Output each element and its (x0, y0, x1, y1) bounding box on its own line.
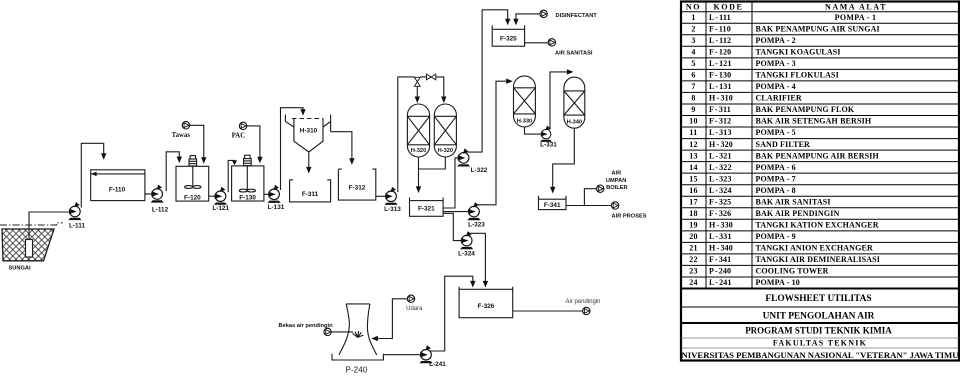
svg-text:CLARIFIER: CLARIFIER (756, 94, 802, 103)
wire F-321 to L-323 (443, 211, 469, 213)
svg-text:Air pendingin: Air pendingin (565, 299, 600, 305)
svg-text:H-320: H-320 (411, 148, 427, 154)
svg-text:5: 5 (691, 59, 695, 68)
wire F-120 to L-121 (209, 195, 216, 197)
tank F-341 (539, 196, 567, 199)
wire L-313 riser to sand filter manifold (398, 77, 415, 192)
wire disinfectant to F-325 (516, 14, 540, 19)
blower Tawas (182, 122, 189, 129)
svg-text:UNIVERSITAS PEMBANGUNAN NASION: UNIVERSITAS PEMBANGUNAN NASIONAL "VETERA… (675, 350, 960, 360)
svg-text:L - 131: L - 131 (709, 82, 732, 91)
svg-text:L - 241: L - 241 (709, 278, 732, 287)
svg-text:Tawas: Tawas (172, 132, 191, 139)
pump L-331 (540, 126, 552, 142)
svg-text:L-241: L-241 (429, 361, 446, 368)
impeller F-130 (239, 189, 247, 192)
svg-text:AIR SANITASI: AIR SANITASI (555, 51, 593, 57)
basin F-311 (290, 180, 331, 202)
svg-text:POMPA - 7: POMPA - 7 (756, 174, 796, 183)
svg-text:11: 11 (689, 128, 697, 137)
svg-text:TANGKI ANION EXCHANGER: TANGKI ANION EXCHANGER (756, 244, 873, 253)
svg-text:F-326: F-326 (478, 303, 495, 310)
wire F-326 to air pendingin (513, 310, 583, 312)
svg-text:F-130: F-130 (239, 194, 256, 201)
svg-text:H - 310: H - 310 (709, 94, 733, 103)
svg-text:4: 4 (691, 48, 695, 57)
basin F-312 (338, 169, 375, 200)
blower bekas air pendingin (324, 328, 331, 335)
blower air umpan boiler (597, 185, 604, 192)
svg-text:L - 323: L - 323 (709, 174, 732, 183)
svg-text:L - 321: L - 321 (709, 151, 732, 160)
svg-text:PAC: PAC (232, 132, 246, 139)
node water surface dash-dot line (0, 223, 63, 225)
svg-text:8: 8 (691, 94, 695, 103)
svg-text:L - 111: L - 111 (709, 13, 731, 22)
svg-text:14: 14 (689, 163, 698, 172)
wire F-312 to L-313 (376, 195, 386, 197)
wire F-130 to L-131 (264, 193, 269, 195)
svg-text:17: 17 (689, 197, 698, 206)
svg-text:24: 24 (689, 278, 698, 287)
svg-text:PROGRAM STUDI TEKNIK KIMIA: PROGRAM STUDI TEKNIK KIMIA (745, 326, 892, 336)
svg-text:H - 320: H - 320 (709, 140, 733, 149)
svg-text:2: 2 (691, 24, 695, 33)
svg-text:H - 330: H - 330 (709, 221, 733, 230)
svg-text:POMPA - 10: POMPA - 10 (756, 278, 800, 287)
svg-text:BOILER: BOILER (606, 185, 628, 191)
wire L-121 to F-130 (228, 160, 234, 192)
cooling tower basin (332, 354, 383, 360)
svg-text:POMPA - 1: POMPA - 1 (835, 13, 877, 22)
svg-text:AIR: AIR (611, 171, 621, 177)
sand/exchanger vessel H-320 (434, 104, 456, 157)
tank F-120 koagulasi (176, 166, 209, 201)
wire L-324 to F-326 (470, 233, 486, 281)
wire F-321 to L-322 (443, 158, 458, 208)
svg-text:BAK PENAMPUNG FLOK: BAK PENAMPUNG FLOK (756, 105, 855, 114)
svg-text:6: 6 (691, 71, 695, 80)
svg-text:9: 9 (691, 105, 695, 114)
svg-text:F - 341: F - 341 (709, 255, 731, 264)
svg-text:POMPA - 3: POMPA - 3 (756, 59, 796, 68)
svg-text:L-323: L-323 (468, 222, 485, 229)
svg-text:F-312: F-312 (349, 184, 366, 191)
svg-text:12: 12 (689, 140, 698, 149)
pump L-324 (460, 231, 473, 249)
wire H-340 to F-341 (553, 128, 575, 187)
pump L-112 (151, 185, 164, 203)
svg-text:20: 20 (689, 232, 698, 241)
svg-text:P - 240: P - 240 (709, 267, 731, 276)
svg-text:F-321: F-321 (418, 205, 435, 212)
svg-text:H-310: H-310 (300, 127, 318, 134)
svg-text:F-325: F-325 (500, 35, 517, 42)
wire valve to H-320 A (416, 86, 418, 97)
svg-text:F - 311: F - 311 (709, 105, 731, 114)
svg-text:L-111: L-111 (69, 223, 85, 230)
tank F-130 flokulasi (232, 166, 264, 201)
svg-text:TANGKI KATION EXCHANGER: TANGKI KATION EXCHANGER (756, 221, 879, 230)
agitator shaft F-130 (246, 166, 248, 191)
svg-text:F - 130: F - 130 (709, 71, 731, 80)
svg-text:Udara: Udara (406, 306, 423, 312)
wire L-112 to F-120 (166, 152, 179, 191)
wire bekas to tower (331, 331, 353, 333)
wire H-320 outlets to F-321 (419, 157, 446, 187)
svg-text:13: 13 (689, 151, 698, 160)
sand/exchanger vessel H-320 (407, 104, 429, 157)
svg-text:F-120: F-120 (184, 194, 201, 201)
svg-text:23: 23 (689, 267, 698, 276)
svg-text:H-320: H-320 (438, 148, 454, 154)
svg-text:DISINFECTANT: DISINFECTANT (556, 13, 598, 19)
svg-text:10: 10 (689, 117, 698, 126)
svg-text:19: 19 (689, 221, 698, 230)
svg-text:L-322: L-322 (471, 167, 488, 174)
valve V2 horizontal bowtie (420, 76, 426, 78)
svg-text:1: 1 (691, 13, 695, 22)
pump L-131 (268, 185, 281, 203)
cooling tower spray (353, 331, 364, 338)
svg-text:Bekas air pendingin: Bekas air pendingin (279, 323, 334, 329)
wire F-110 to L-112 (145, 193, 152, 195)
agitator motor F-130 (245, 155, 250, 158)
svg-text:3: 3 (691, 36, 695, 45)
svg-text:BAK AIR SANITASI: BAK AIR SANITASI (756, 197, 831, 206)
svg-text:16: 16 (689, 186, 698, 195)
svg-text:L - 331: L - 331 (709, 232, 732, 241)
svg-text:22: 22 (689, 255, 698, 264)
pump L-313 (385, 187, 398, 205)
blower PAC (239, 122, 246, 129)
svg-text:18: 18 (689, 209, 698, 218)
tank F-326 (459, 287, 513, 290)
blower air proses (611, 202, 618, 209)
svg-text:POMPA - 8: POMPA - 8 (756, 186, 796, 195)
blower udara (407, 295, 414, 302)
wire udara to cooling tower (378, 299, 408, 339)
svg-text:L - 313: L - 313 (709, 128, 732, 137)
svg-text:H-330: H-330 (517, 118, 533, 124)
pump L-323 (467, 202, 480, 220)
sand/exchanger vessel H-340 (564, 77, 585, 128)
svg-text:BAK AIR PENDINGIN: BAK AIR PENDINGIN (756, 209, 840, 218)
wire L-323 to H-330 (478, 81, 507, 205)
svg-text:F - 312: F - 312 (709, 117, 731, 126)
wire L-331 to H-340 (550, 72, 567, 130)
svg-text:15: 15 (689, 174, 698, 183)
svg-text:TANGKI AIR DEMINERALISASI: TANGKI AIR DEMINERALISASI (756, 255, 881, 264)
svg-text:F-341: F-341 (544, 202, 561, 209)
blower disinfectant (540, 10, 547, 17)
svg-text:L-324: L-324 (458, 251, 475, 258)
valve V1 vertical (416, 76, 418, 78)
pump L-322 (457, 148, 470, 166)
svg-text:KODE: KODE (714, 2, 744, 11)
agitator motor F-120 (190, 156, 195, 159)
pump L-111 (68, 202, 81, 220)
wire L-241 riser to F-326 (430, 276, 473, 351)
wire manifold to H-320 B (436, 77, 444, 97)
svg-text:NAMA ALAT: NAMA ALAT (825, 2, 887, 11)
wire basin to L-241 (383, 354, 421, 356)
svg-text:L-112: L-112 (152, 206, 169, 213)
svg-text:BAK AIR SETENGAH BERSIH: BAK AIR SETENGAH BERSIH (756, 117, 872, 126)
impeller F-120 (185, 186, 193, 189)
svg-text:BAK PENAMPUNG AIR SUNGAI: BAK PENAMPUNG AIR SUNGAI (756, 24, 880, 33)
wire F-341 to outlets (566, 189, 611, 206)
svg-text:POMPA - 9: POMPA - 9 (756, 232, 796, 241)
svg-text:7: 7 (691, 82, 695, 91)
agitator shaft F-120 (192, 166, 194, 187)
svg-text:SAND FILTER: SAND FILTER (756, 140, 811, 149)
tank F-110 (91, 170, 145, 201)
pump L-121 (214, 187, 227, 205)
svg-text:H - 340: H - 340 (709, 244, 733, 253)
svg-text:BAK PENAMPUNG AIR BERSIH: BAK PENAMPUNG AIR BERSIH (756, 151, 880, 160)
svg-text:POMPA - 6: POMPA - 6 (756, 163, 796, 172)
svg-text:F - 326: F - 326 (709, 209, 731, 218)
wire intake to L-111 (29, 212, 69, 240)
wire F-325 to air sanitasi (525, 42, 549, 44)
sand/exchanger vessel H-330 (514, 76, 536, 127)
svg-text:L - 322: L - 322 (709, 163, 732, 172)
clarifier right launder (323, 115, 331, 132)
tank F-325 (492, 25, 524, 29)
svg-text:P-240: P-240 (345, 366, 367, 375)
svg-text:COOLING TOWER: COOLING TOWER (756, 267, 829, 276)
wire H-310 overflow to F-312 (331, 132, 352, 159)
svg-text:F-311: F-311 (302, 191, 319, 198)
svg-text:H-340: H-340 (567, 120, 583, 126)
svg-text:L-331: L-331 (540, 142, 557, 149)
svg-text:TANGKI FLOKULASI: TANGKI FLOKULASI (756, 71, 839, 80)
wire L-131 to H-310 (281, 108, 304, 190)
svg-text:FLOWSHEET UTILITAS: FLOWSHEET UTILITAS (765, 294, 871, 304)
clarifier H-310 (292, 118, 323, 120)
wire H-330 to L-331 (525, 127, 541, 134)
river SUNGAI hatched basin (2, 229, 54, 261)
svg-text:POMPA - 2: POMPA - 2 (756, 36, 796, 45)
svg-text:AIR PROSES: AIR PROSES (612, 213, 647, 219)
wire L-322 to F-325 (466, 10, 508, 152)
svg-text:TANGKI KOAGULASI: TANGKI KOAGULASI (756, 48, 841, 57)
svg-text:L-121: L-121 (212, 205, 229, 212)
svg-text:F - 120: F - 120 (709, 48, 731, 57)
svg-text:NO: NO (686, 2, 701, 11)
svg-text:POMPA - 5: POMPA - 5 (756, 128, 796, 137)
svg-text:21: 21 (689, 244, 698, 253)
svg-text:UMPAN: UMPAN (606, 178, 626, 184)
equipment table frame (681, 2, 959, 361)
wire PAC to F-130 (247, 126, 260, 157)
wire Tawas to F-120 (190, 125, 204, 157)
svg-text:F - 325: F - 325 (709, 197, 731, 206)
svg-text:L-131: L-131 (268, 204, 285, 211)
wire F-321 to L-324 (443, 213, 461, 240)
svg-text:L - 112: L - 112 (709, 36, 731, 45)
svg-text:F - 110: F - 110 (709, 24, 731, 33)
svg-text:F-110: F-110 (109, 186, 126, 193)
svg-text:L-313: L-313 (384, 206, 401, 213)
svg-text:L - 324: L - 324 (709, 186, 732, 195)
svg-text:POMPA - 4: POMPA - 4 (756, 82, 796, 91)
cooling tower P-240 shell (339, 304, 377, 355)
clarifier left launder (285, 115, 294, 128)
intake screen (26, 240, 33, 258)
svg-text:SUNGAI: SUNGAI (8, 266, 31, 272)
svg-text:UNIT PENGOLAHAN AIR: UNIT PENGOLAHAN AIR (763, 311, 875, 321)
svg-text:L - 121: L - 121 (709, 59, 732, 68)
pump L-241 (419, 345, 432, 363)
tank F-321 (410, 198, 444, 201)
wire L-111 to F-110 (81, 143, 103, 207)
svg-text:FAKULTAS TEKNIK: FAKULTAS TEKNIK (773, 339, 867, 348)
